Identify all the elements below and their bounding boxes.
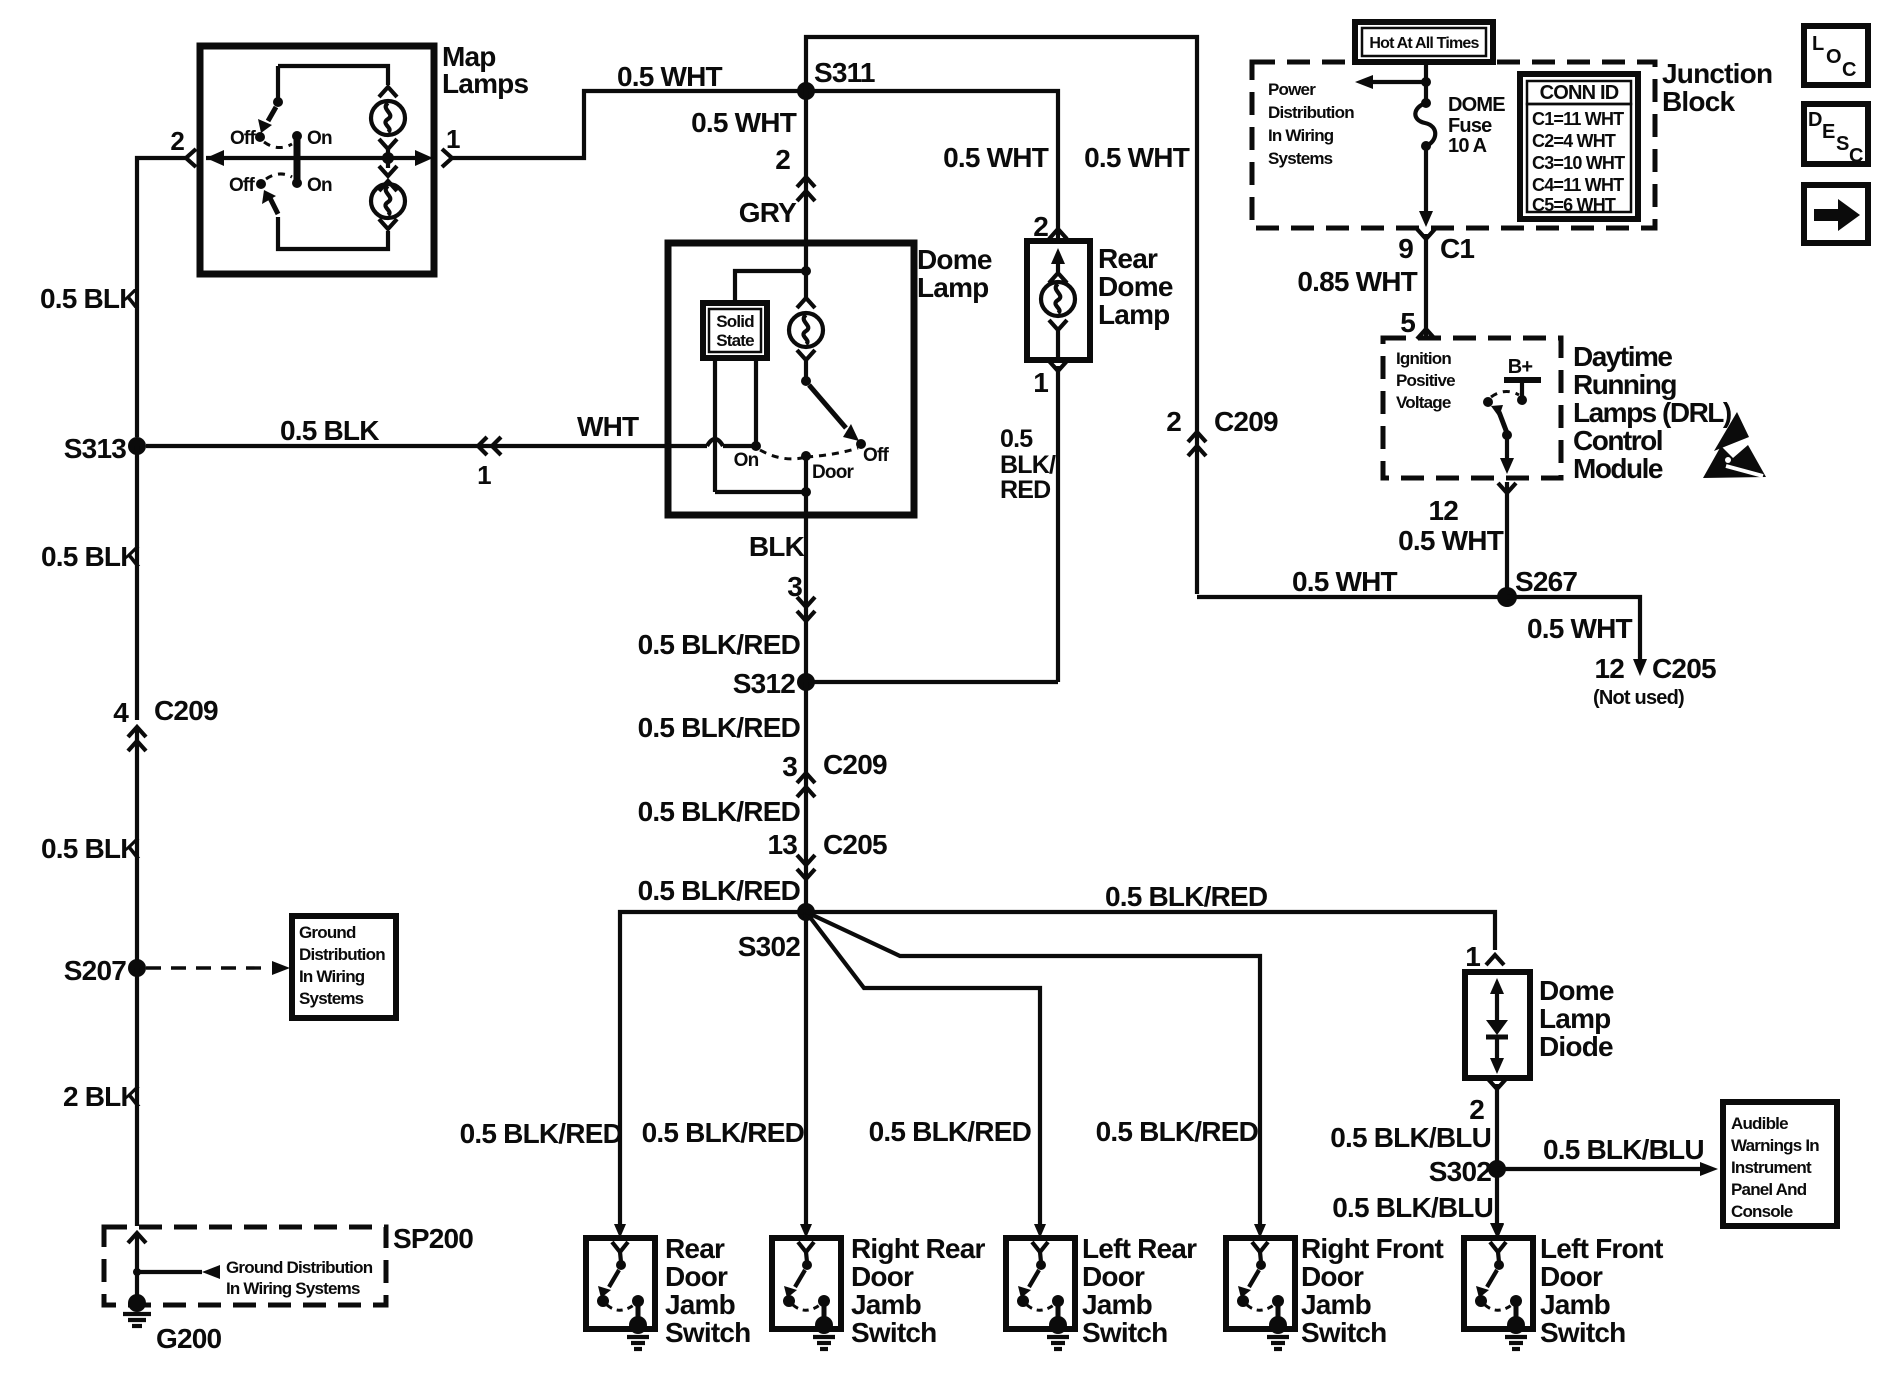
- wire S313 to C209 pin 4: [41, 446, 140, 720]
- wire S207 to SP200: [63, 968, 140, 1226]
- svg-text:Distribution: Distribution: [299, 945, 385, 964]
- wire S312 to S302: [638, 682, 887, 908]
- LOC legend box: [1804, 26, 1868, 85]
- svg-text:0.5 WHT: 0.5 WHT: [1084, 142, 1190, 173]
- svg-text:Rear: Rear: [1098, 243, 1158, 274]
- svg-text:Door: Door: [665, 1261, 728, 1292]
- splice S302 lower: [1429, 1156, 1506, 1187]
- svg-text:SP200: SP200: [393, 1223, 473, 1254]
- svg-text:2: 2: [1469, 1094, 1484, 1125]
- svg-text:WHT: WHT: [577, 411, 639, 442]
- connector C209 pin 4: [113, 695, 218, 751]
- svg-text:In Wiring: In Wiring: [1268, 126, 1334, 145]
- DRL internal text: [1396, 349, 1455, 412]
- wire S302 to right rear door jamb switch: [642, 912, 806, 1224]
- CONN ID table: [1520, 74, 1638, 219]
- rear dome lamp pin 2: [1033, 211, 1067, 242]
- svg-text:Jamb: Jamb: [665, 1289, 735, 1320]
- svg-text:Door: Door: [812, 462, 855, 483]
- DRL control module dashed box: [1383, 338, 1731, 484]
- wire C209 to S267: [1197, 566, 1507, 597]
- svg-text:Left Front: Left Front: [1540, 1233, 1663, 1264]
- svg-text:0.5 BLK/RED: 0.5 BLK/RED: [460, 1118, 623, 1149]
- svg-text:0.5 WHT: 0.5 WHT: [943, 142, 1049, 173]
- svg-text:Jamb: Jamb: [1301, 1289, 1371, 1320]
- svg-text:0.5 WHT: 0.5 WHT: [691, 107, 797, 138]
- wire S311 down to dome lamp: [691, 91, 806, 243]
- wire S313 to dome lamp switch (WHT): [146, 411, 752, 490]
- svg-text:Door: Door: [1301, 1261, 1364, 1292]
- left rear door jamb switch: [1006, 1224, 1197, 1349]
- svg-text:C2=4 WHT: C2=4 WHT: [1532, 131, 1616, 151]
- svg-text:2 BLK: 2 BLK: [63, 1081, 140, 1112]
- svg-text:1: 1: [477, 460, 491, 490]
- svg-text:0.5 BLK/RED: 0.5 BLK/RED: [1105, 881, 1268, 912]
- svg-text:Voltage: Voltage: [1396, 393, 1451, 412]
- ESD warning symbol: [1703, 412, 1766, 478]
- svg-text:Lamp: Lamp: [1539, 1003, 1610, 1034]
- svg-text:S311: S311: [814, 57, 875, 88]
- svg-text:E: E: [1822, 121, 1835, 143]
- reference wire to audible warnings: [1497, 1134, 1718, 1176]
- svg-text:0.5 BLK/RED: 0.5 BLK/RED: [638, 629, 801, 660]
- svg-text:Distribution: Distribution: [1268, 103, 1354, 122]
- svg-text:Control: Control: [1573, 425, 1662, 456]
- map lamps pin 2: [170, 126, 196, 167]
- svg-text:Off: Off: [229, 175, 256, 196]
- svg-text:Warnings In: Warnings In: [1731, 1136, 1819, 1155]
- svg-text:Instrument: Instrument: [1731, 1158, 1812, 1177]
- svg-text:Dome: Dome: [1098, 271, 1173, 302]
- svg-text:Switch: Switch: [665, 1317, 750, 1348]
- svg-text:C5=6 WHT: C5=6 WHT: [1532, 195, 1616, 215]
- svg-text:S267: S267: [1515, 566, 1577, 597]
- svg-text:0.5 WHT: 0.5 WHT: [1292, 566, 1398, 597]
- svg-text:1: 1: [446, 124, 460, 154]
- svg-text:Lamps (DRL): Lamps (DRL): [1573, 397, 1731, 428]
- svg-text:S302: S302: [1429, 1156, 1491, 1187]
- svg-text:5: 5: [1400, 307, 1415, 338]
- svg-text:D: D: [1808, 109, 1822, 131]
- svg-text:C1: C1: [1440, 233, 1474, 264]
- svg-text:Lamp: Lamp: [917, 272, 988, 303]
- solid state box: [703, 303, 767, 358]
- svg-text:0.5: 0.5: [1000, 425, 1033, 453]
- dome lamp diode pin 2: [1469, 1079, 1506, 1125]
- svg-text:Block: Block: [1662, 86, 1735, 117]
- hot at all times flag: [1355, 22, 1493, 62]
- svg-text:In Wiring Systems: In Wiring Systems: [226, 1279, 360, 1298]
- DESC legend box: [1804, 104, 1868, 167]
- wire C1 to DRL module: [1297, 234, 1435, 339]
- svg-text:2: 2: [1166, 406, 1181, 437]
- wire S302 to rear door jamb switch: [460, 912, 806, 1224]
- svg-text:Off: Off: [863, 445, 890, 466]
- svg-text:C205: C205: [1652, 653, 1716, 684]
- svg-text:L: L: [1812, 33, 1824, 55]
- svg-text:DOME: DOME: [1448, 94, 1505, 116]
- svg-text:12: 12: [1594, 653, 1624, 684]
- svg-text:Ignition: Ignition: [1396, 349, 1451, 368]
- svg-text:Systems: Systems: [299, 989, 364, 1008]
- svg-text:Rear: Rear: [665, 1233, 725, 1264]
- svg-text:RED: RED: [1000, 476, 1050, 504]
- SP200 internal node and reference: [128, 1233, 373, 1300]
- svg-text:Door: Door: [1540, 1261, 1603, 1292]
- svg-text:0.5 BLK/BLU: 0.5 BLK/BLU: [1543, 1134, 1704, 1165]
- svg-text:0.5 BLK/BLU: 0.5 BLK/BLU: [1332, 1192, 1493, 1223]
- ground distribution reference box: [292, 916, 396, 1018]
- svg-text:C209: C209: [823, 749, 887, 780]
- left front door jamb switch: [1464, 1224, 1663, 1349]
- svg-text:13: 13: [767, 829, 797, 860]
- svg-text:Systems: Systems: [1268, 149, 1333, 168]
- svg-text:Audible: Audible: [1731, 1114, 1788, 1133]
- svg-text:S302: S302: [738, 931, 800, 962]
- arrow legend box: [1804, 185, 1868, 243]
- dome lamp bulb: [789, 271, 823, 377]
- wire hot feed with branch arrow: [1355, 62, 1431, 102]
- svg-text:On: On: [307, 128, 332, 149]
- svg-text:In Wiring: In Wiring: [299, 967, 365, 986]
- svg-text:C209: C209: [154, 695, 218, 726]
- svg-text:Jamb: Jamb: [851, 1289, 921, 1320]
- svg-text:0.5 BLK/RED: 0.5 BLK/RED: [638, 712, 801, 743]
- wire diode to S302 lower: [1330, 1084, 1504, 1238]
- junction block dashed box: [1252, 58, 1772, 228]
- splice S207: [64, 955, 146, 986]
- map lamp bulb 1 (top): [278, 66, 405, 164]
- svg-text:0.5 BLK: 0.5 BLK: [41, 541, 140, 572]
- splice pack SP200 dashed box: [104, 1223, 473, 1305]
- svg-text:On: On: [307, 175, 332, 196]
- svg-text:Daytime: Daytime: [1573, 341, 1672, 372]
- svg-text:2: 2: [170, 126, 184, 156]
- svg-text:3: 3: [782, 751, 797, 782]
- wire S311 to rear dome lamp: [806, 91, 1058, 238]
- svg-text:0.5 BLK/RED: 0.5 BLK/RED: [642, 1117, 805, 1148]
- svg-text:Left Rear: Left Rear: [1082, 1233, 1197, 1264]
- svg-text:G200: G200: [156, 1323, 222, 1354]
- svg-text:C3=10 WHT: C3=10 WHT: [1532, 153, 1625, 173]
- splice S302: [738, 903, 815, 962]
- svg-text:S312: S312: [733, 668, 795, 699]
- svg-text:C1=11 WHT: C1=11 WHT: [1532, 109, 1624, 129]
- svg-text:Panel And: Panel And: [1731, 1180, 1807, 1199]
- svg-text:BLK/: BLK/: [1000, 451, 1056, 479]
- svg-text:0.85 WHT: 0.85 WHT: [1297, 266, 1417, 297]
- svg-text:Console: Console: [1731, 1202, 1793, 1221]
- svg-text:C: C: [1842, 59, 1856, 81]
- svg-text:Junction: Junction: [1662, 58, 1772, 89]
- rear dome lamp: [1027, 241, 1173, 360]
- connector C209 pin 2 (right column): [1166, 406, 1278, 456]
- svg-text:Diode: Diode: [1539, 1031, 1613, 1062]
- audible warnings reference box: [1723, 1102, 1837, 1226]
- wire C209 to S207: [41, 728, 140, 968]
- svg-text:0.5 BLK: 0.5 BLK: [41, 833, 140, 864]
- svg-text:C205: C205: [823, 829, 887, 860]
- svg-text:Right Rear: Right Rear: [851, 1233, 985, 1264]
- dome lamp internal node: [735, 243, 811, 303]
- map lamps switch 2 (bottom): [229, 174, 388, 249]
- svg-text:Jamb: Jamb: [1082, 1289, 1152, 1320]
- svg-text:Solid: Solid: [716, 312, 754, 331]
- svg-text:S: S: [1836, 133, 1849, 155]
- map lamps box: [200, 41, 528, 274]
- wire left ground bus: [40, 158, 186, 437]
- svg-text:Power: Power: [1268, 80, 1316, 99]
- svg-text:Door: Door: [1082, 1261, 1145, 1292]
- dome lamp box: [668, 243, 992, 515]
- svg-text:10 A: 10 A: [1448, 135, 1487, 157]
- wire S311 top distribution to C209 column: [806, 37, 1197, 594]
- splice S312: [733, 668, 1058, 699]
- svg-text:Right Front: Right Front: [1301, 1233, 1444, 1264]
- svg-text:Hot At All Times: Hot At All Times: [1369, 35, 1479, 52]
- svg-text:0.5 BLK/RED: 0.5 BLK/RED: [638, 875, 801, 906]
- svg-text:12: 12: [1428, 495, 1458, 526]
- wire rear dome lamp to S312: [1000, 366, 1058, 682]
- svg-text:0.5 BLK/RED: 0.5 BLK/RED: [638, 796, 801, 827]
- svg-text:0.5 WHT: 0.5 WHT: [617, 61, 723, 92]
- dashed reference S207 to ground distribution: [146, 961, 290, 975]
- connector C1 pin 9: [1398, 229, 1474, 264]
- svg-text:CONN ID: CONN ID: [1540, 82, 1619, 104]
- svg-text:9: 9: [1398, 233, 1413, 264]
- svg-text:Dome: Dome: [917, 244, 992, 275]
- map lamp bulb 2 (bottom): [371, 158, 405, 229]
- svg-text:0.5 BLK: 0.5 BLK: [40, 283, 139, 314]
- svg-text:Door: Door: [851, 1261, 914, 1292]
- splice S311: [797, 57, 875, 100]
- fuse DOME 10A: [1415, 94, 1505, 227]
- wire dome lamp to S312 (BLK): [638, 492, 815, 678]
- svg-text:0.5 BLK/RED: 0.5 BLK/RED: [1096, 1116, 1259, 1147]
- right front door jamb switch: [1226, 1224, 1444, 1349]
- connector pin 2 GRY (dome lamp): [739, 144, 815, 228]
- ground G200: [123, 1294, 222, 1354]
- svg-text:Switch: Switch: [1082, 1317, 1167, 1348]
- svg-text:S313: S313: [64, 433, 126, 464]
- splice S313: [64, 433, 146, 464]
- wire S267 to C205 pin 12: [1507, 597, 1716, 709]
- svg-text:0.5 BLK/RED: 0.5 BLK/RED: [869, 1116, 1032, 1147]
- svg-text:Dome: Dome: [1539, 975, 1614, 1006]
- solid state output wires: [715, 358, 806, 492]
- svg-text:Module: Module: [1573, 453, 1663, 484]
- svg-text:0.5 BLK/BLU: 0.5 BLK/BLU: [1330, 1122, 1491, 1153]
- svg-text:S207: S207: [64, 955, 126, 986]
- svg-text:2: 2: [775, 144, 790, 175]
- svg-text:GRY: GRY: [739, 197, 797, 228]
- svg-text:1: 1: [1465, 941, 1480, 972]
- map lamps internal bus wire: [206, 150, 433, 166]
- dome lamp diode: [1465, 972, 1614, 1078]
- splice S267: [1497, 566, 1577, 607]
- svg-text:0.5 WHT: 0.5 WHT: [1398, 525, 1504, 556]
- svg-text:4: 4: [113, 697, 129, 728]
- svg-text:Ground: Ground: [299, 923, 356, 942]
- wire S302 to left rear door jamb switch: [806, 912, 1040, 1224]
- svg-text:Lamps: Lamps: [442, 68, 528, 99]
- svg-text:Off: Off: [230, 128, 257, 149]
- svg-text:Ground Distribution: Ground Distribution: [226, 1258, 373, 1277]
- svg-text:(Not used): (Not used): [1593, 687, 1684, 709]
- svg-text:1: 1: [1033, 367, 1048, 398]
- map lamps switch 1 (top): [230, 66, 332, 183]
- svg-text:O: O: [1826, 46, 1841, 68]
- rear door jamb switch: [586, 1224, 750, 1349]
- DRL output pin 12: [1428, 483, 1516, 526]
- svg-text:BLK: BLK: [749, 531, 805, 562]
- wire map lamps pin1 to S311: [452, 61, 801, 158]
- svg-text:Switch: Switch: [1301, 1317, 1386, 1348]
- svg-text:Jamb: Jamb: [1540, 1289, 1610, 1320]
- svg-text:Fuse: Fuse: [1448, 115, 1492, 137]
- svg-text:C: C: [1849, 145, 1863, 167]
- DRL B+ and switch: [1483, 356, 1541, 474]
- svg-text:B+: B+: [1508, 356, 1533, 378]
- svg-text:C209: C209: [1214, 406, 1278, 437]
- svg-text:Switch: Switch: [851, 1317, 936, 1348]
- dome lamp door switch: [734, 376, 890, 497]
- rear dome lamp pin 1: [1033, 361, 1067, 398]
- wire S302 to dome lamp diode: [806, 881, 1495, 950]
- svg-text:Switch: Switch: [1540, 1317, 1625, 1348]
- right rear door jamb switch: [772, 1224, 985, 1349]
- svg-text:2: 2: [1033, 211, 1048, 242]
- power distribution reference text: [1268, 80, 1354, 168]
- svg-text:0.5 BLK: 0.5 BLK: [280, 415, 379, 446]
- svg-text:C4=11 WHT: C4=11 WHT: [1532, 175, 1624, 195]
- wire DRL to S267: [1398, 482, 1507, 597]
- wire S302 to right front door jamb switch: [806, 912, 1260, 1224]
- svg-text:Positive: Positive: [1396, 371, 1455, 390]
- svg-text:Lamp: Lamp: [1098, 299, 1169, 330]
- svg-text:Running: Running: [1573, 369, 1676, 400]
- svg-text:0.5 WHT: 0.5 WHT: [1527, 613, 1633, 644]
- svg-text:On: On: [734, 450, 759, 471]
- svg-text:State: State: [716, 331, 754, 350]
- map lamps pin 1: [442, 124, 460, 167]
- dome lamp diode pin 1: [1465, 941, 1504, 972]
